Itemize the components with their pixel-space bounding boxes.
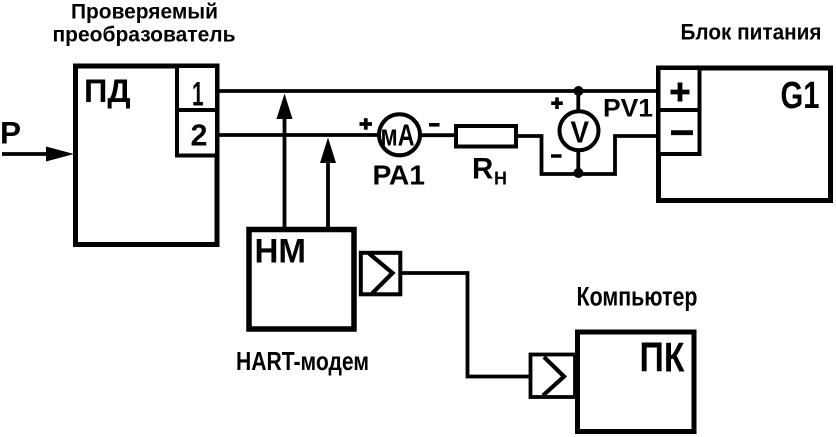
svg-text:2: 2 bbox=[191, 118, 208, 153]
svg-text:Компьютер: Компьютер bbox=[577, 282, 698, 312]
svg-text:Р: Р bbox=[0, 115, 21, 151]
svg-text:ПД: ПД bbox=[84, 73, 131, 109]
svg-text:R: R bbox=[472, 153, 493, 186]
svg-text:1: 1 bbox=[192, 75, 204, 113]
svg-text:преобразователь: преобразователь bbox=[52, 24, 235, 47]
svg-text:HART-модем: HART-модем bbox=[236, 346, 369, 376]
svg-text:V: V bbox=[571, 115, 590, 150]
svg-text:Проверяемый: Проверяемый bbox=[71, 1, 218, 24]
svg-text:Блок питания: Блок питания bbox=[681, 19, 822, 44]
svg-text:ПК: ПК bbox=[640, 334, 685, 381]
svg-text:НМ: НМ bbox=[255, 233, 307, 271]
svg-text:PV1: PV1 bbox=[603, 95, 653, 123]
svg-text:РА1: РА1 bbox=[373, 160, 426, 191]
svg-text:Н: Н bbox=[494, 169, 507, 189]
svg-text:мА: мА bbox=[381, 118, 415, 153]
svg-text:G1: G1 bbox=[781, 75, 820, 117]
